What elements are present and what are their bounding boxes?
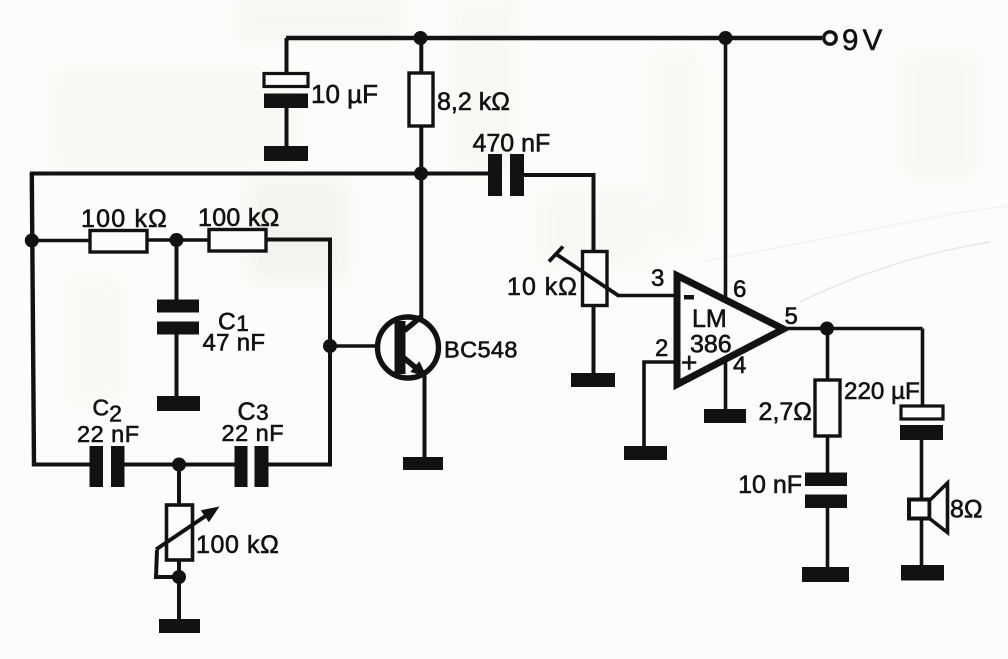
svg-text:8Ω: 8Ω <box>950 496 983 524</box>
capacitor 220uF electrolytic <box>900 406 943 440</box>
svg-text:9 V: 9 V <box>842 24 883 57</box>
wire rail to 8.2k <box>419 38 423 73</box>
node junction pot bottom <box>172 570 186 584</box>
wire emitter to ground <box>423 374 427 458</box>
wire pin 5 output <box>783 327 923 331</box>
svg-text:22 nF: 22 nF <box>222 420 285 446</box>
svg-text:+: + <box>681 347 697 378</box>
resistor 8.2k <box>409 73 433 126</box>
node junction output <box>820 322 834 336</box>
wire left to R1 <box>32 239 90 243</box>
wire C2 to C3 <box>125 463 236 467</box>
potentiometer 100k arrow <box>156 507 220 550</box>
ground below 10k pot <box>571 373 615 387</box>
wire 8.2k to collector <box>419 126 423 317</box>
capacitor C2 22nF <box>90 446 125 487</box>
wire wiper to pin 3 <box>618 294 677 298</box>
wire pot to ground <box>177 560 181 620</box>
potentiometer 10k body <box>583 252 608 306</box>
wire 2.7ohm to 10nF <box>826 436 830 473</box>
svg-text:2: 2 <box>655 335 668 362</box>
resistor 2.7ohm <box>815 380 840 436</box>
wire 10uF to ground <box>285 108 289 147</box>
potentiometer 100k body <box>167 505 193 560</box>
svg-text:22 nF: 22 nF <box>77 421 140 447</box>
ground below 10nF <box>802 567 849 582</box>
ground below emitter <box>403 457 443 470</box>
ground below pin 2 <box>624 446 667 460</box>
capacitor C1 47nF <box>157 300 199 335</box>
node junction C2/C3/pot <box>172 458 186 472</box>
wire pin 6 from rail <box>724 38 728 301</box>
wire speaker to ground <box>920 518 924 566</box>
wire R2 to right vertical <box>266 240 330 467</box>
op-amp U1 LM386 triangle <box>677 276 784 385</box>
svg-text:47 nF: 47 nF <box>203 330 266 357</box>
svg-text:220 µF: 220 µF <box>844 378 920 405</box>
resistor R 100k second <box>209 230 266 252</box>
svg-text:2,7Ω: 2,7Ω <box>759 398 812 426</box>
speaker 8 ohm <box>909 483 948 533</box>
wire 9V supply rail <box>286 36 822 41</box>
potentiometer 10k wiper arrow <box>549 247 619 297</box>
ground below 100k pot <box>159 619 200 633</box>
svg-text:100 kΩ: 100 kΩ <box>198 204 280 232</box>
wire pin 4 to ground <box>724 359 728 410</box>
node junction R1/R2/C1 <box>170 233 184 247</box>
svg-text:10 nF: 10 nF <box>738 471 802 499</box>
capacitor 10nF <box>805 473 847 509</box>
node junction rail/pin6 <box>719 31 733 45</box>
wire 10nF to ground <box>826 508 830 568</box>
svg-text:100 kΩ: 100 kΩ <box>81 205 168 233</box>
scan streak artifact right <box>800 242 990 302</box>
wire base <box>330 344 396 348</box>
resistor R 100k first <box>90 231 147 253</box>
svg-text:4: 4 <box>733 352 746 379</box>
svg-text:10 kΩ: 10 kΩ <box>507 273 578 301</box>
wire rail to 10uF <box>285 38 289 75</box>
wire node to 100k pot <box>177 465 181 506</box>
node junction collector/feed <box>414 167 428 181</box>
wire R1 to R2 <box>147 238 209 242</box>
wire bottom row left <box>32 463 90 467</box>
wire C3 to right vertical <box>269 463 331 467</box>
wire feedback top horizontal <box>30 172 489 176</box>
wire output to 220uF <box>921 329 925 408</box>
ground below pin 4 <box>704 409 746 423</box>
wire 220uF to speaker <box>920 440 924 500</box>
svg-text:10 µF: 10 µF <box>311 79 378 109</box>
node junction left/R1 <box>25 234 39 248</box>
capacitor 470nF <box>488 154 524 196</box>
wire C1 top <box>175 240 179 300</box>
wire pot bypass <box>156 550 179 577</box>
capacitor 10uF electrolytic <box>264 74 308 109</box>
wire output to 2.7ohm <box>826 329 830 381</box>
svg-text:6: 6 <box>733 276 746 303</box>
terminal 9V <box>824 32 836 44</box>
label minus input <box>684 295 694 300</box>
svg-text:470 nF: 470 nF <box>473 130 551 158</box>
svg-text:100 kΩ: 100 kΩ <box>196 531 279 559</box>
wire pin 2 <box>644 362 677 447</box>
transistor Q1 BC548 <box>378 316 439 378</box>
wire 470nF to pot <box>524 175 594 252</box>
wire C1 to ground <box>175 334 179 397</box>
svg-text:5: 5 <box>785 303 798 330</box>
svg-text:3: 3 <box>651 265 664 292</box>
ground below C1 <box>157 396 200 411</box>
svg-text:LM: LM <box>692 305 727 333</box>
wire 10k pot to ground <box>592 306 596 375</box>
ground below speaker <box>901 565 944 581</box>
node junction base <box>323 339 337 353</box>
svg-text:8,2 kΩ: 8,2 kΩ <box>437 88 510 116</box>
ground below 10uF <box>264 146 308 161</box>
node junction rail/8.2k <box>414 31 428 45</box>
wire feedback left vertical <box>32 174 34 467</box>
capacitor C3 22nF <box>235 446 269 487</box>
svg-text:BC548: BC548 <box>444 337 518 363</box>
